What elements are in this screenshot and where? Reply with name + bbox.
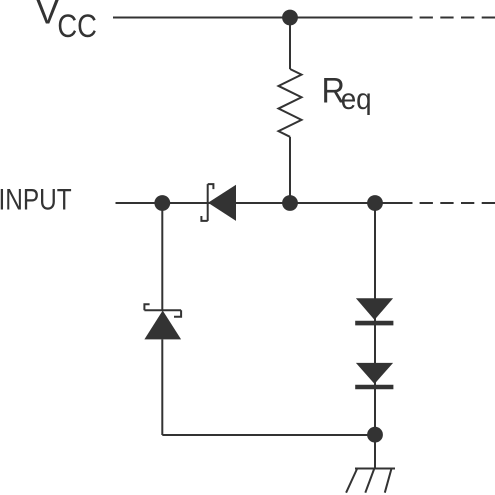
wire VCC dashed continuation <box>420 17 495 19</box>
schottky diode D1 cathode bar <box>201 184 213 221</box>
junction node VCC/resistor <box>282 10 298 26</box>
resistor Req zigzag body <box>279 69 302 137</box>
wire resistor top lead <box>289 18 291 70</box>
schottky diode D2 arrow <box>144 311 181 340</box>
diode D4 cathode bar <box>355 385 393 390</box>
ground symbol <box>346 469 395 493</box>
svg-text:V: V <box>36 0 60 31</box>
junction node INPUT/left branch <box>154 195 170 211</box>
wire INPUT dashed continuation <box>420 202 495 204</box>
wire left branch below zener <box>161 339 163 435</box>
wire VCC top rail <box>113 17 413 19</box>
svg-text:INPUT: INPUT <box>0 183 72 216</box>
diode D4 arrow <box>356 363 393 384</box>
wire ground lead <box>374 435 376 469</box>
wire right branch vertical <box>374 203 376 435</box>
junction node bottom rail <box>367 427 383 443</box>
wire bottom rail <box>162 434 375 436</box>
diode D3 cathode bar <box>355 321 393 326</box>
svg-text:eq: eq <box>341 83 372 116</box>
wire resistor bottom lead <box>289 137 291 203</box>
wire INPUT rail <box>116 202 413 204</box>
junction node INPUT/resistor <box>282 195 298 211</box>
svg-text:CC: CC <box>57 8 97 44</box>
diode D3 arrow <box>356 298 393 320</box>
schottky diode D1 arrow <box>208 185 236 221</box>
wire left branch vertical <box>161 203 163 310</box>
junction node INPUT/right branch <box>367 195 383 211</box>
schottky diode D2 cathode bar <box>144 304 181 317</box>
